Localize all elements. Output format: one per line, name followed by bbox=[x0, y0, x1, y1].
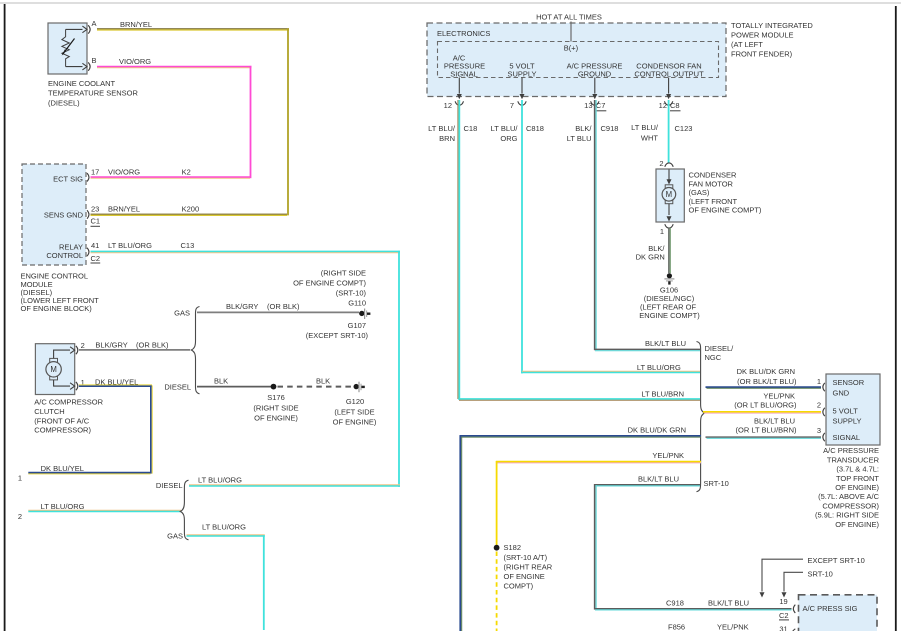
TIPM output CONDENSOR FAN CONTROL OUTPUT pin 12 connector C8 bbox=[634, 62, 704, 111]
svg-text:C7: C7 bbox=[596, 101, 606, 110]
svg-text:LT BLU: LT BLU bbox=[567, 134, 592, 143]
svg-text:BLK/LT BLU: BLK/LT BLU bbox=[708, 598, 749, 607]
svg-text:OF ENGINE): OF ENGINE) bbox=[835, 483, 879, 492]
svg-text:1: 1 bbox=[660, 227, 664, 236]
svg-text:LT BLU/ORG: LT BLU/ORG bbox=[637, 363, 681, 372]
engine coolant temperature sensor (diesel) bbox=[48, 23, 87, 74]
wire BLK/DK GRN fan motor pin 1 to ground G106 bbox=[636, 228, 671, 273]
wire BLK dashed S176 to ground G120 bbox=[278, 376, 352, 386]
transducer description label bbox=[815, 446, 880, 529]
svg-text:1: 1 bbox=[817, 377, 821, 386]
svg-text:31: 31 bbox=[779, 624, 787, 631]
pointer arrow EXCEPT SRT-10 bbox=[760, 556, 865, 597]
svg-text:BRN/YEL: BRN/YEL bbox=[108, 205, 140, 214]
svg-text:SENSOR: SENSOR bbox=[833, 378, 865, 387]
svg-text:5 VOLT: 5 VOLT bbox=[833, 406, 859, 415]
svg-text:C918: C918 bbox=[666, 598, 684, 607]
transducer pin 2 bbox=[817, 401, 825, 416]
svg-text:13: 13 bbox=[584, 101, 592, 110]
compressor clutch pin 2 bbox=[70, 341, 85, 354]
ground G110 (SRT-10) bbox=[293, 268, 370, 319]
svg-text:FRONT FENDER): FRONT FENDER) bbox=[731, 50, 793, 59]
svg-text:C818: C818 bbox=[526, 124, 544, 133]
svg-text:(OR LT BLU/BRN): (OR LT BLU/BRN) bbox=[736, 426, 797, 435]
svg-text:(OR LT BLU/ORG): (OR LT BLU/ORG) bbox=[734, 400, 797, 409]
svg-text:C8: C8 bbox=[670, 101, 680, 110]
ECM pin 17 ECT SIG bbox=[87, 168, 191, 182]
svg-text:BLK/GRY: BLK/GRY bbox=[95, 341, 127, 350]
svg-text:OF ENGINE BLOCK): OF ENGINE BLOCK) bbox=[21, 304, 93, 313]
wire YEL/PNK brace to transducer pin 2 bbox=[703, 391, 821, 413]
condenser fan motor pin 1 bbox=[660, 224, 673, 236]
svg-text:G120: G120 bbox=[346, 397, 364, 406]
svg-text:(RIGHT SIDE: (RIGHT SIDE bbox=[321, 268, 366, 277]
svg-text:C2: C2 bbox=[779, 611, 789, 620]
svg-text:B(+): B(+) bbox=[564, 43, 579, 52]
wire LT BLU/WHT C123 TIPM pin 12 to condenser fan motor bbox=[631, 100, 692, 163]
svg-text:SUPPLY: SUPPLY bbox=[507, 69, 536, 78]
svg-text:(AT LEFT: (AT LEFT bbox=[731, 40, 763, 49]
svg-text:C18: C18 bbox=[464, 124, 478, 133]
svg-text:DIESEL: DIESEL bbox=[164, 383, 191, 392]
wire VIO/ORG sensor pin B to ECM pin 17 bbox=[91, 66, 252, 178]
svg-text:C123: C123 bbox=[675, 124, 693, 133]
svg-text:B: B bbox=[92, 56, 97, 65]
svg-text:A/C PRESS SIG: A/C PRESS SIG bbox=[803, 604, 858, 613]
svg-text:BLK/LT BLU: BLK/LT BLU bbox=[645, 339, 686, 348]
transducer pin 3 bbox=[817, 426, 825, 441]
svg-text:BRN: BRN bbox=[439, 134, 455, 143]
svg-text:(RIGHT SIDE: (RIGHT SIDE bbox=[253, 403, 298, 412]
svg-text:SENS GND: SENS GND bbox=[44, 210, 84, 219]
label LT BLU/ORG diesel branch bbox=[198, 476, 242, 485]
svg-text:DK BLU/YEL: DK BLU/YEL bbox=[95, 377, 138, 386]
splice S182 (SRT-10 A/T) bbox=[494, 543, 553, 590]
svg-text:SUPPLY: SUPPLY bbox=[833, 416, 862, 425]
svg-text:GAS: GAS bbox=[174, 309, 190, 318]
svg-text:POWER MODULE: POWER MODULE bbox=[731, 31, 794, 40]
wire DK BLU/YEL compressor pin 1 to lead 1 bbox=[28, 377, 152, 474]
TIPM output A/C PRESSURE GROUND pin 13 connector C7 bbox=[567, 62, 623, 111]
svg-text:S182: S182 bbox=[504, 543, 522, 552]
svg-text:(SRT-10 A/T): (SRT-10 A/T) bbox=[504, 553, 548, 562]
label ground G107 except SRT-10 bbox=[306, 321, 369, 340]
wire LT BLU/BRN C18 TIPM pin 12 to brace bbox=[428, 100, 700, 400]
svg-text:WHT: WHT bbox=[641, 134, 658, 143]
svg-text:(FRONT OF A/C: (FRONT OF A/C bbox=[34, 417, 89, 426]
svg-text:TEMPERATURE SENSOR: TEMPERATURE SENSOR bbox=[48, 89, 138, 98]
pointer arrow SRT-10 bbox=[782, 570, 833, 598]
svg-text:(EXCEPT SRT-10): (EXCEPT SRT-10) bbox=[306, 331, 369, 340]
svg-text:(OR BLK): (OR BLK) bbox=[267, 302, 300, 311]
svg-text:K2: K2 bbox=[182, 168, 191, 177]
svg-text:(3.7L & 4.7L:: (3.7L & 4.7L: bbox=[836, 465, 879, 474]
splice S176 bbox=[253, 384, 298, 423]
svg-text:YEL/PNK: YEL/PNK bbox=[763, 391, 795, 400]
compressor clutch description label bbox=[34, 398, 103, 435]
svg-text:LT BLU/BRN: LT BLU/BRN bbox=[641, 390, 684, 399]
svg-text:(SRT-10): (SRT-10) bbox=[336, 289, 367, 298]
svg-text:LT BLU/ORG: LT BLU/ORG bbox=[108, 241, 152, 250]
svg-text:GAS: GAS bbox=[167, 532, 183, 541]
svg-text:OF ENGINE COMPT): OF ENGINE COMPT) bbox=[689, 206, 762, 215]
svg-text:2: 2 bbox=[81, 341, 85, 350]
svg-text:CONTROL OUTPUT: CONTROL OUTPUT bbox=[634, 69, 704, 78]
a/c compressor clutch motor M1 bbox=[35, 344, 74, 395]
svg-text:TRANSDUCER: TRANSDUCER bbox=[827, 455, 880, 464]
svg-text:YEL/PNK: YEL/PNK bbox=[652, 451, 684, 460]
ground G106 (diesel/NGC) bbox=[639, 273, 700, 320]
svg-text:NGC: NGC bbox=[705, 353, 722, 362]
svg-text:SIGNAL: SIGNAL bbox=[450, 69, 478, 78]
wire BRN/YEL sensor pin A to ECM pin 23 bbox=[91, 28, 290, 215]
svg-text:BLK: BLK bbox=[316, 376, 330, 385]
wire DK BLU/DK GRN brace to transducer pin 1 bbox=[706, 367, 822, 388]
svg-text:VIO/ORG: VIO/ORG bbox=[108, 168, 140, 177]
TIPM description label bbox=[731, 21, 813, 59]
svg-text:ENGINE COMPT): ENGINE COMPT) bbox=[639, 311, 700, 320]
lead 1 label DK BLU/YEL bbox=[18, 464, 84, 483]
wire LT BLU/ORG lead 2 to brace split bbox=[28, 510, 181, 511]
svg-text:GND: GND bbox=[833, 388, 850, 397]
svg-text:LT BLU/ORG: LT BLU/ORG bbox=[202, 523, 246, 532]
svg-text:2: 2 bbox=[659, 159, 663, 168]
svg-text:COMPRESSOR): COMPRESSOR) bbox=[822, 501, 879, 510]
sensor description label bbox=[48, 79, 138, 108]
svg-text:G110: G110 bbox=[348, 299, 366, 308]
svg-text:(DIESEL): (DIESEL) bbox=[48, 99, 80, 108]
wire BLK/GRY gas branch to ground G110 bbox=[197, 302, 359, 312]
svg-text:(RIGHT REAR: (RIGHT REAR bbox=[504, 563, 553, 572]
svg-text:OF ENGINE): OF ENGINE) bbox=[835, 520, 879, 529]
svg-text:19: 19 bbox=[779, 597, 787, 606]
ground G120 bbox=[333, 382, 377, 427]
svg-text:SIGNAL: SIGNAL bbox=[833, 433, 861, 442]
wire BLK/LT BLU SRT-10 from pin 19 to brace bbox=[594, 475, 792, 610]
svg-text:C918: C918 bbox=[601, 124, 619, 133]
lead 2 label LT BLU/ORG bbox=[18, 502, 85, 521]
condenser fan motor pin 2 bbox=[659, 159, 673, 168]
sensor pin B bbox=[82, 56, 96, 71]
svg-text:(LEFT SIDE: (LEFT SIDE bbox=[334, 407, 374, 416]
svg-text:(OR BLK): (OR BLK) bbox=[136, 341, 169, 350]
svg-text:LT BLU/: LT BLU/ bbox=[491, 124, 519, 133]
svg-text:BLK/LT BLU: BLK/LT BLU bbox=[754, 416, 795, 425]
svg-text:BLK/GRY: BLK/GRY bbox=[226, 302, 258, 311]
svg-text:A: A bbox=[92, 19, 97, 28]
svg-text:DK BLU/DK GRN: DK BLU/DK GRN bbox=[628, 426, 686, 435]
svg-text:DIESEL/: DIESEL/ bbox=[705, 344, 735, 353]
svg-text:ECT SIG: ECT SIG bbox=[53, 175, 83, 184]
svg-text:DK BLU/YEL: DK BLU/YEL bbox=[41, 464, 84, 473]
svg-text:LT BLU/: LT BLU/ bbox=[428, 124, 456, 133]
pin 19 connector C2 bbox=[779, 605, 795, 621]
wire LT BLU/ORG C818 TIPM pin 7 to brace bbox=[491, 100, 700, 373]
svg-text:G107: G107 bbox=[348, 321, 366, 330]
svg-text:C13: C13 bbox=[181, 241, 195, 250]
wire BLK/LT BLU C918 TIPM pin 13 to brace bbox=[567, 100, 700, 351]
svg-text:TOTALLY INTEGRATED: TOTALLY INTEGRATED bbox=[731, 21, 813, 30]
svg-text:M: M bbox=[50, 365, 57, 374]
svg-text:SRT-10: SRT-10 bbox=[704, 479, 729, 488]
svg-text:2: 2 bbox=[817, 401, 821, 410]
svg-text:DIESEL: DIESEL bbox=[156, 481, 183, 490]
svg-text:LT BLU/: LT BLU/ bbox=[631, 123, 659, 132]
engine control module (diesel) box U-ECM bbox=[22, 164, 86, 265]
svg-text:A/C COMPRESSOR: A/C COMPRESSOR bbox=[34, 398, 103, 407]
svg-text:ELECTRONICS: ELECTRONICS bbox=[437, 29, 490, 38]
svg-text:HOT AT ALL TIMES: HOT AT ALL TIMES bbox=[536, 13, 602, 22]
ECM pin 23 SENS GND connector C1 bbox=[87, 205, 199, 227]
ECM description label bbox=[21, 272, 100, 314]
wire LT BLU/ORG gas branch down bbox=[187, 523, 265, 630]
svg-text:COMPT): COMPT) bbox=[504, 582, 534, 591]
brace split DIESEL/GAS for lead 2 bbox=[156, 480, 189, 541]
sensor pin A bbox=[82, 19, 96, 33]
totally integrated power module box U-TIPM bbox=[427, 23, 726, 97]
svg-text:GROUND: GROUND bbox=[578, 69, 612, 78]
wire BLK diesel branch to splice S176 bbox=[197, 376, 272, 386]
svg-text:LT BLU/ORG: LT BLU/ORG bbox=[198, 476, 242, 485]
svg-text:ENGINE COOLANT: ENGINE COOLANT bbox=[48, 79, 116, 88]
svg-text:3: 3 bbox=[817, 426, 821, 435]
svg-text:1: 1 bbox=[18, 474, 22, 483]
wire LT BLU/ORG C13 ECM pin 41 to diesel branch of splice brace bbox=[91, 251, 401, 487]
svg-text:DK GRN: DK GRN bbox=[636, 253, 665, 262]
svg-text:OF ENGINE: OF ENGINE bbox=[504, 572, 545, 581]
brace split GAS/DIESEL for compressor clutch ground bbox=[164, 307, 199, 394]
svg-text:EXCEPT SRT-10: EXCEPT SRT-10 bbox=[808, 556, 865, 565]
svg-text:CONDENSER: CONDENSER bbox=[689, 171, 738, 180]
svg-text:BLK/LT BLU: BLK/LT BLU bbox=[638, 475, 679, 484]
TIPM output A/C PRESSURE SIGNAL pin 12 bbox=[444, 54, 485, 110]
svg-text:12: 12 bbox=[444, 101, 452, 110]
svg-text:LT BLU/ORG: LT BLU/ORG bbox=[41, 502, 85, 511]
wire BLK/LT BLU brace to transducer pin 3 bbox=[706, 416, 822, 438]
TIPM output 5 VOLT SUPPLY pin 7 bbox=[507, 62, 536, 111]
labels F856 YEL/PNK pin 31 bbox=[668, 622, 795, 631]
svg-text:TOP FRONT: TOP FRONT bbox=[836, 474, 879, 483]
svg-text:41: 41 bbox=[91, 241, 99, 250]
svg-text:F856: F856 bbox=[668, 622, 685, 631]
svg-text:M: M bbox=[666, 190, 673, 199]
svg-text:SRT-10: SRT-10 bbox=[808, 570, 833, 579]
svg-text:C2: C2 bbox=[91, 254, 101, 263]
a/c pressure transducer box U2 bbox=[826, 374, 880, 445]
svg-text:(5.7L: ABOVE A/C: (5.7L: ABOVE A/C bbox=[818, 492, 879, 501]
label BRN/YEL (top) bbox=[120, 20, 152, 29]
svg-text:S176: S176 bbox=[267, 393, 285, 402]
transducer pin 1 bbox=[817, 377, 825, 391]
svg-text:C1: C1 bbox=[91, 217, 101, 226]
svg-text:(OR BLK/LT BLU): (OR BLK/LT BLU) bbox=[737, 377, 797, 386]
svg-text:17: 17 bbox=[91, 168, 99, 177]
svg-text:OF ENGINE COMPT): OF ENGINE COMPT) bbox=[293, 279, 366, 288]
svg-text:DK BLU/DK GRN: DK BLU/DK GRN bbox=[737, 367, 795, 376]
ECM pin 41 RELAY CONTROL connector C2 bbox=[87, 241, 194, 263]
svg-text:(5.9L: RIGHT SIDE: (5.9L: RIGHT SIDE bbox=[815, 511, 879, 520]
svg-text:BLK: BLK bbox=[214, 376, 228, 385]
wire DK BLU/DK GRN from below to brace bbox=[460, 426, 701, 631]
svg-text:OF ENGINE): OF ENGINE) bbox=[333, 418, 377, 427]
brace gather DIESEL/NGC and SRT-10 to a/c pressure transducer bbox=[697, 342, 735, 492]
svg-text:(GAS): (GAS) bbox=[689, 188, 710, 197]
svg-text:23: 23 bbox=[91, 205, 99, 214]
condenser fan motor description label bbox=[689, 171, 762, 215]
svg-text:A/C PRESSURE: A/C PRESSURE bbox=[823, 446, 879, 455]
compressor clutch pin 1 bbox=[70, 378, 85, 390]
svg-text:K200: K200 bbox=[182, 205, 200, 214]
label HOT AT ALL TIMES feed bbox=[536, 13, 602, 42]
svg-text:COMPRESSOR): COMPRESSOR) bbox=[34, 426, 91, 435]
svg-text:CONTROL: CONTROL bbox=[46, 251, 83, 260]
condenser fan motor M2 (gas) bbox=[656, 169, 684, 222]
wire BLK/GRY compressor pin 2 to brace bbox=[79, 341, 190, 350]
svg-text:BLK/: BLK/ bbox=[575, 124, 592, 133]
svg-text:12: 12 bbox=[659, 101, 667, 110]
svg-text:BRN/YEL: BRN/YEL bbox=[120, 20, 152, 29]
svg-text:OF ENGINE): OF ENGINE) bbox=[254, 414, 298, 423]
labels C918 BLK/LT BLU pin 19 bbox=[666, 597, 788, 607]
label VIO/ORG (top) bbox=[119, 57, 151, 66]
svg-text:VIO/ORG: VIO/ORG bbox=[119, 57, 151, 66]
svg-text:2: 2 bbox=[18, 512, 22, 521]
a/c press sig box (cut off) bbox=[799, 595, 878, 631]
wire YEL/PNK from below through splice S182 to brace bbox=[496, 451, 701, 631]
svg-text:CLUTCH: CLUTCH bbox=[34, 407, 64, 416]
svg-text:ORG: ORG bbox=[500, 134, 517, 143]
svg-text:YEL/PNK: YEL/PNK bbox=[717, 623, 749, 631]
svg-text:7: 7 bbox=[510, 101, 514, 110]
